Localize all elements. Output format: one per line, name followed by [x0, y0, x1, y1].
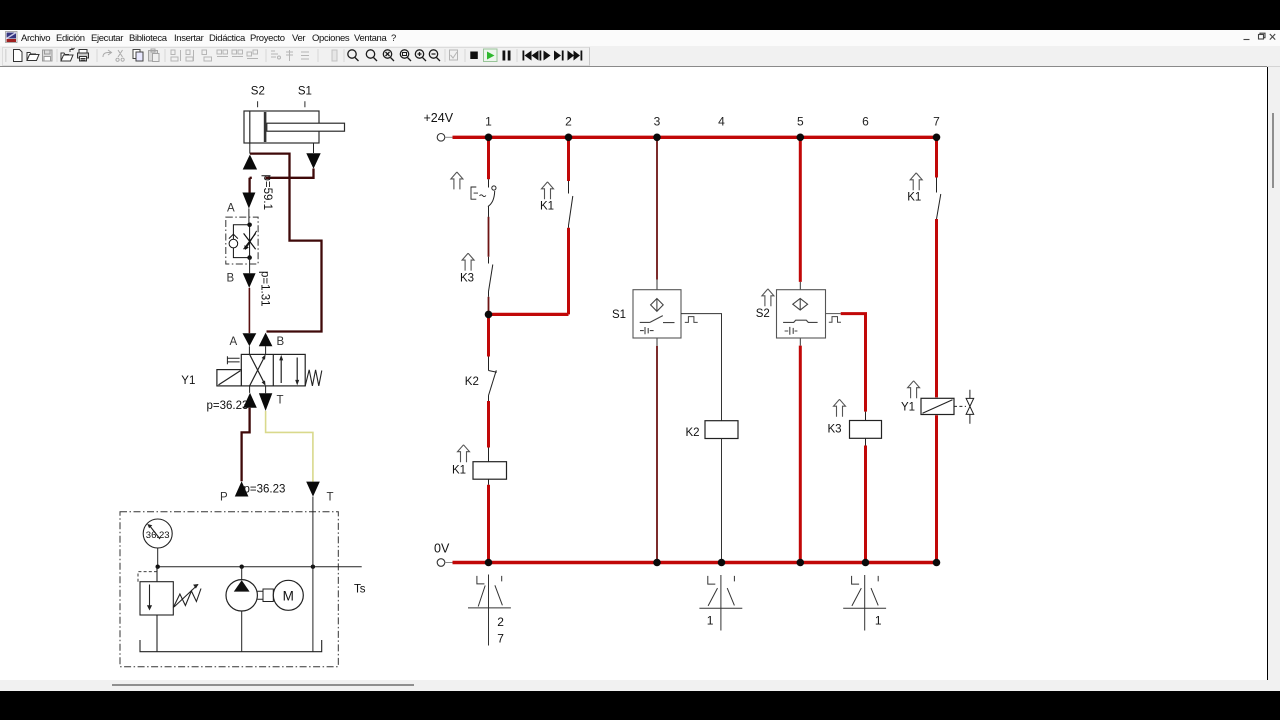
flow arrow down at rod port: [306, 153, 320, 169]
actuation arrow Y1: [908, 381, 920, 398]
node A flow valve: [247, 223, 252, 228]
wire K2 to 0V: [721, 439, 723, 562]
cylinder C1 with sensors S1 S2: [244, 101, 345, 143]
actuation arrow K1 coil: [458, 445, 470, 462]
junction rung5 0V: [797, 559, 805, 567]
valve port T arrow down: [259, 393, 272, 411]
port stubs into valve: [249, 346, 265, 354]
label p=59.1: [252, 173, 265, 201]
+24V terminal: [437, 134, 452, 142]
wire below flow valve: [249, 258, 251, 274]
solenoid Y1 electrical: [921, 398, 954, 414]
wire +24V rail: [453, 136, 937, 139]
hose piston-side to valve B (pressurized): [250, 154, 322, 332]
fluidsim logo: [6, 32, 18, 43]
wire cylinder port stubs: [250, 143, 314, 154]
contact K2 NC (rung1): [489, 357, 497, 402]
relay coil K1: [488, 448, 490, 485]
hose rod-side down to flow valve: [250, 169, 314, 193]
actuation arrow pushbutton: [451, 172, 463, 189]
pulse symbol S1: [685, 317, 698, 323]
junction rung4 0V: [718, 559, 726, 567]
proximity switch S2 actuated: [777, 290, 826, 338]
contact K1 NO (rung2): [569, 181, 573, 228]
junction rung7 0V: [933, 559, 941, 567]
junction rung1 0V: [485, 559, 493, 567]
flow valve main line with throttle: [244, 225, 257, 258]
wire rung1 live segments: [487, 139, 490, 562]
relay coil K2: [705, 421, 738, 439]
wire rung3 stubs: [656, 280, 658, 346]
wire rung1 idle segments: [488, 217, 490, 312]
tank hose T to power unit: [266, 411, 313, 482]
valve link symbol: [954, 390, 974, 424]
wire 0V rail: [453, 561, 937, 564]
flow arrow down below flow valve: [243, 273, 256, 288]
junction gauge: [156, 565, 160, 569]
pushbutton with detent (rung1): [471, 179, 496, 217]
valve port A arrow down: [243, 333, 257, 346]
directional valve Y1 4/2 way: [241, 354, 305, 386]
contact K1 NO (rung7): [937, 178, 941, 220]
flow valve check bypass: [229, 225, 250, 258]
actuation arrow K3: [462, 253, 474, 270]
solenoid Y1: [217, 370, 241, 386]
power unit P arrow up: [235, 481, 249, 496]
flow arrow down above flow valve: [242, 193, 255, 209]
motor M: [257, 580, 303, 610]
pump: [226, 567, 257, 652]
pulse symbol S2: [829, 317, 841, 323]
internal rail: [158, 566, 362, 568]
wire to flow valve: [248, 209, 250, 225]
junction rung1 node: [485, 311, 493, 319]
wire rung7 live: [935, 139, 938, 562]
proximity switch S1: [633, 290, 681, 338]
tank: [140, 640, 322, 652]
junction +24V rail nodes: [485, 134, 941, 142]
contact mirror K3: [843, 575, 886, 631]
relay coil K3: [865, 412, 867, 446]
spring return: [305, 370, 322, 386]
hose flow valve to valve port A: [248, 288, 250, 333]
valve port P arrow up: [243, 393, 257, 408]
relief valve: [138, 567, 201, 652]
power unit T arrow down: [306, 482, 320, 497]
wire rung1 to rung2 link: [489, 313, 569, 316]
tank line vertical: [312, 497, 314, 652]
power unit frame: [120, 512, 338, 667]
rung numbers 1-7: [485, 115, 940, 129]
junction tank line: [311, 565, 315, 569]
wire rung2 live segments: [567, 139, 570, 315]
hose P to power unit: [242, 408, 250, 482]
toolbar icons: [5, 48, 582, 62]
actuation arrow S2: [762, 289, 774, 306]
pressure gauge: [143, 519, 172, 548]
junction rung6 0V: [862, 559, 870, 567]
port stubs below valve: [250, 386, 266, 393]
junction rung3 0V: [653, 559, 661, 567]
flow control valve V1 frame: [226, 217, 258, 264]
node B flow valve: [247, 255, 252, 260]
actuation arrow K1 rung2: [542, 182, 554, 199]
contact mirror K2: [699, 575, 742, 631]
actuation arrow K1 rung7: [910, 173, 922, 190]
manual override: [227, 356, 239, 364]
wire rung5 live: [799, 139, 802, 562]
0V terminal: [437, 559, 452, 567]
junction pump: [240, 565, 244, 569]
wire rung5 stubs: [799, 282, 801, 346]
contact K3 NO (rung1): [489, 257, 493, 297]
gauge stem: [157, 548, 159, 567]
window buttons: [1244, 33, 1276, 39]
actuation arrow K3 coil: [834, 399, 846, 416]
contact mirror K1: [468, 575, 511, 646]
valve port B arrow up: [259, 333, 273, 347]
wire rung3 idle: [656, 139, 658, 562]
flow arrow up at piston port: [243, 155, 257, 170]
wire K3 to 0V live: [864, 446, 867, 562]
wire S2 output live: [826, 313, 841, 315]
wire S1 output: [681, 314, 722, 421]
